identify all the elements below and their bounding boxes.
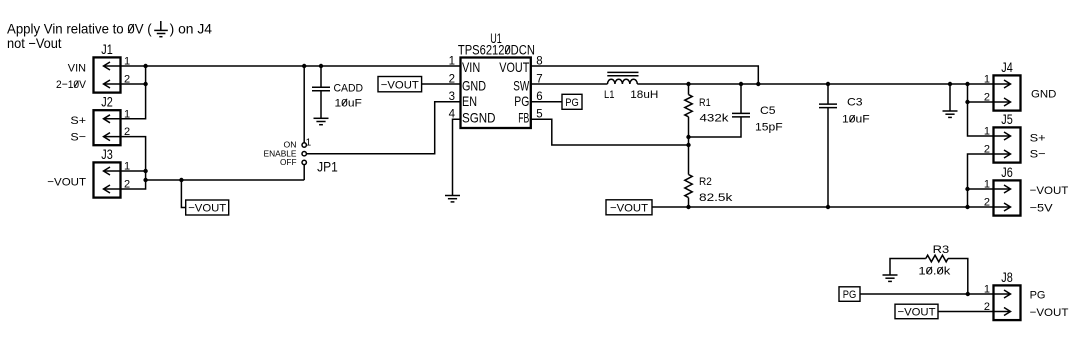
svg-text:JP1: JP1 xyxy=(317,160,338,175)
svg-text:GND: GND xyxy=(1031,88,1056,100)
net label -VOUT (J8) xyxy=(895,304,938,319)
svg-text:J4: J4 xyxy=(1001,60,1013,75)
svg-text:2: 2 xyxy=(984,92,990,104)
svg-text:1: 1 xyxy=(984,74,990,86)
wire C5 top lead xyxy=(740,84,742,113)
svg-text:J8: J8 xyxy=(1001,270,1013,285)
wire R2 bottom lead xyxy=(688,198,690,207)
junction -VOUT J6.1 xyxy=(965,187,969,191)
svg-text:C5: C5 xyxy=(760,105,776,117)
svg-text:R1: R1 xyxy=(699,97,711,109)
svg-text:2: 2 xyxy=(449,73,455,85)
wire R1 top lead xyxy=(688,84,690,95)
junction -VOUT flag stub xyxy=(179,178,183,182)
svg-text:−VOUT: −VOUT xyxy=(1030,307,1069,319)
wire J5.2 to J6 vertical xyxy=(968,154,994,207)
svg-text:−VOUT: −VOUT xyxy=(188,203,226,215)
wire J2.2 to J3 vertical xyxy=(121,137,146,189)
wire U1 FB to divider xyxy=(531,119,689,145)
wire U1 VOUT to GND node xyxy=(531,66,759,84)
net label PG (U1 pin6) xyxy=(562,94,582,109)
svg-text:3: 3 xyxy=(449,91,455,103)
svg-text:TPS62120DCN: TPS62120DCN xyxy=(458,43,535,58)
junction -VOUT R2 xyxy=(686,205,690,209)
connector J3 xyxy=(94,162,121,197)
connector J2 xyxy=(94,110,121,145)
wire JP1 ENABLE to U1 EN xyxy=(306,102,460,154)
svg-text:ENABLE: ENABLE xyxy=(264,149,297,158)
svg-text:GND: GND xyxy=(462,77,486,93)
wire -VOUT horizontal to JP1 OFF xyxy=(146,179,305,181)
svg-text:ON: ON xyxy=(284,141,297,150)
wire C3 bottom lead xyxy=(827,108,829,207)
junction FB C5 tie xyxy=(686,135,690,139)
capacitor CADD xyxy=(312,87,330,91)
ground at U1 SGND xyxy=(445,196,460,202)
wire CADD to ground xyxy=(320,91,322,118)
junction VIN J1.2 xyxy=(143,82,147,86)
wire stub to -VOUT flag xyxy=(181,180,185,208)
jumper JP1 pin 1 (ON) xyxy=(302,143,306,147)
svg-text:not −Vout: not −Vout xyxy=(7,35,62,51)
svg-text:VOUT: VOUT xyxy=(499,59,529,75)
note inline ground symbol xyxy=(154,21,168,37)
svg-text:2: 2 xyxy=(984,144,990,156)
wire R3 right lead to PG node xyxy=(948,259,968,295)
ground at R3 xyxy=(883,275,898,281)
svg-text:J6: J6 xyxy=(1001,165,1013,180)
junction VIN J1.1 xyxy=(143,64,147,68)
junction GND C3 tap xyxy=(826,82,830,86)
inductor L1 xyxy=(607,72,638,84)
svg-text:R3: R3 xyxy=(933,244,950,256)
svg-text:PG: PG xyxy=(514,93,529,109)
junction VIN CADD tap xyxy=(319,64,323,68)
connector J5 xyxy=(994,127,1021,162)
junction -VOUT J3.1 xyxy=(143,169,147,173)
svg-text:1: 1 xyxy=(449,55,455,67)
junction GND C5 tap xyxy=(739,82,743,86)
wire -VOUT flag to U1 pin2 xyxy=(422,83,461,85)
svg-text:SGND: SGND xyxy=(462,110,496,126)
junction GND J4.2 xyxy=(965,100,969,104)
svg-text:VIN: VIN xyxy=(68,63,86,75)
resistor R2 xyxy=(685,175,692,198)
svg-text:J2: J2 xyxy=(101,95,113,110)
svg-text:10.0k: 10.0k xyxy=(918,265,950,277)
capacitor C3 xyxy=(819,104,837,108)
connector J4 xyxy=(994,75,1021,110)
connector J6 xyxy=(994,180,1021,215)
wire GND branch to J4.2 and J5.1 xyxy=(968,84,994,136)
svg-text:PG: PG xyxy=(843,289,857,301)
svg-text:−VOUT: −VOUT xyxy=(898,307,936,319)
svg-text:1: 1 xyxy=(984,284,990,296)
svg-text:1: 1 xyxy=(984,126,990,138)
wire VIN vertical J1 to J2.1 xyxy=(121,66,146,119)
connector J8 xyxy=(994,285,1021,320)
wire -VOUT rail to J6.2 xyxy=(652,206,994,208)
wire VIN to JP1 pin1 xyxy=(303,66,305,143)
svg-text:VIN: VIN xyxy=(462,59,480,75)
capacitor C5 xyxy=(732,113,750,117)
wire J1.2 stub xyxy=(121,83,146,85)
svg-text:15pF: 15pF xyxy=(755,122,783,134)
wire C5 bottom lead to FB node xyxy=(689,117,742,137)
junction GND J5 branch xyxy=(965,82,969,86)
svg-text:EN: EN xyxy=(462,93,477,109)
net label -VOUT (left) xyxy=(186,200,229,215)
junction -VOUT node xyxy=(143,178,147,182)
resistor R3 xyxy=(926,255,948,262)
IC U1 TPS62120DCN body xyxy=(461,58,531,129)
wire U1 PG stub xyxy=(531,101,562,103)
junction FB node xyxy=(686,143,690,147)
wire R1 bottom lead to R2 xyxy=(688,117,690,175)
svg-text:) on J4: ) on J4 xyxy=(170,21,213,37)
svg-text:−VOUT: −VOUT xyxy=(381,79,419,91)
svg-text:J3: J3 xyxy=(101,147,113,162)
svg-text:C3: C3 xyxy=(847,97,863,109)
ground at J4 xyxy=(943,111,958,117)
junction GND VOUT tie xyxy=(756,82,760,86)
jumper JP1 pin 3 (OFF) xyxy=(302,160,306,164)
svg-text:CADD: CADD xyxy=(334,83,364,95)
wire GND net after L1 to J4.1 xyxy=(637,83,993,85)
net label PG (bottom) xyxy=(839,287,860,302)
svg-text:10uF: 10uF xyxy=(842,114,870,126)
junction GND R1 tap xyxy=(686,82,690,86)
svg-text:2−10V: 2−10V xyxy=(56,79,86,91)
svg-text:−VOUT: −VOUT xyxy=(610,203,648,215)
wire VIN net J1.1 to U1 pin1 xyxy=(121,65,461,67)
wire J3.1 stub xyxy=(121,170,146,172)
svg-text:432k: 432k xyxy=(700,113,729,125)
svg-text:S−: S− xyxy=(70,131,86,143)
svg-text:−VOUT: −VOUT xyxy=(47,177,86,189)
wire ground stem right xyxy=(949,84,951,111)
svg-text:−5V: −5V xyxy=(1030,203,1054,215)
svg-text:J1: J1 xyxy=(101,42,113,57)
svg-text:PG: PG xyxy=(565,97,579,109)
ground at CADD xyxy=(314,118,329,124)
wire -VOUT to J8.2 xyxy=(938,311,994,313)
svg-text:1: 1 xyxy=(984,179,990,191)
wire SW left segment xyxy=(531,83,608,85)
svg-text:OFF: OFF xyxy=(280,158,297,167)
junction -VOUT C3 xyxy=(826,205,830,209)
svg-text:1: 1 xyxy=(306,138,312,149)
svg-text:S+: S+ xyxy=(70,115,86,127)
junction PG R3 xyxy=(966,292,970,296)
resistor R1 xyxy=(685,95,692,117)
wire U1 SGND to ground xyxy=(453,119,461,195)
wire J4.2 stub xyxy=(968,101,994,103)
svg-text:2: 2 xyxy=(984,301,990,313)
svg-text:L1: L1 xyxy=(604,89,615,101)
svg-text:10uF: 10uF xyxy=(335,97,363,109)
junction GND ground tap xyxy=(948,82,952,86)
svg-text:2: 2 xyxy=(984,197,990,209)
net label -VOUT (output rail) xyxy=(606,200,652,215)
svg-text:PG: PG xyxy=(1030,290,1046,302)
svg-text:FB: FB xyxy=(518,110,529,126)
wire PG to J8.1 xyxy=(860,293,994,295)
svg-text:18uH: 18uH xyxy=(630,89,658,101)
connector J1 xyxy=(94,57,121,92)
svg-text:S−: S− xyxy=(1030,149,1046,161)
net label -VOUT (U1 GND pin) xyxy=(378,77,422,92)
svg-text:J5: J5 xyxy=(1001,112,1013,127)
svg-text:82.5k: 82.5k xyxy=(699,192,733,204)
svg-text:SW: SW xyxy=(513,77,530,93)
svg-text:−VOUT: −VOUT xyxy=(1030,185,1069,197)
svg-text:R2: R2 xyxy=(699,176,712,188)
jumper JP1 pin 2 (ENABLE) xyxy=(302,152,306,156)
junction VIN JP1 tap xyxy=(302,64,306,68)
wire R3 ground stem xyxy=(890,259,926,276)
wire C3 top lead xyxy=(827,84,829,104)
wire J6.1 stub xyxy=(968,188,994,190)
wire VIN to CADD xyxy=(320,66,322,87)
svg-text:S+: S+ xyxy=(1030,133,1046,145)
junction -VOUT J6.2 xyxy=(965,205,969,209)
wire JP1 OFF to -VOUT line xyxy=(303,165,305,180)
